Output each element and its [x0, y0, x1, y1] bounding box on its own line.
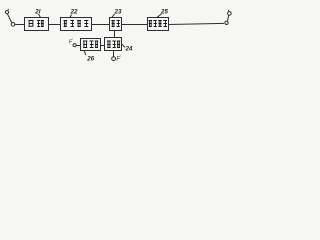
svg-text:26: 26 [86, 56, 94, 63]
svg-text:25: 25 [160, 9, 168, 16]
svg-text:2l: 2l [34, 9, 40, 16]
svg-text:23: 23 [114, 9, 122, 16]
svg-text:24: 24 [125, 45, 133, 52]
svg-text:22: 22 [70, 9, 78, 16]
